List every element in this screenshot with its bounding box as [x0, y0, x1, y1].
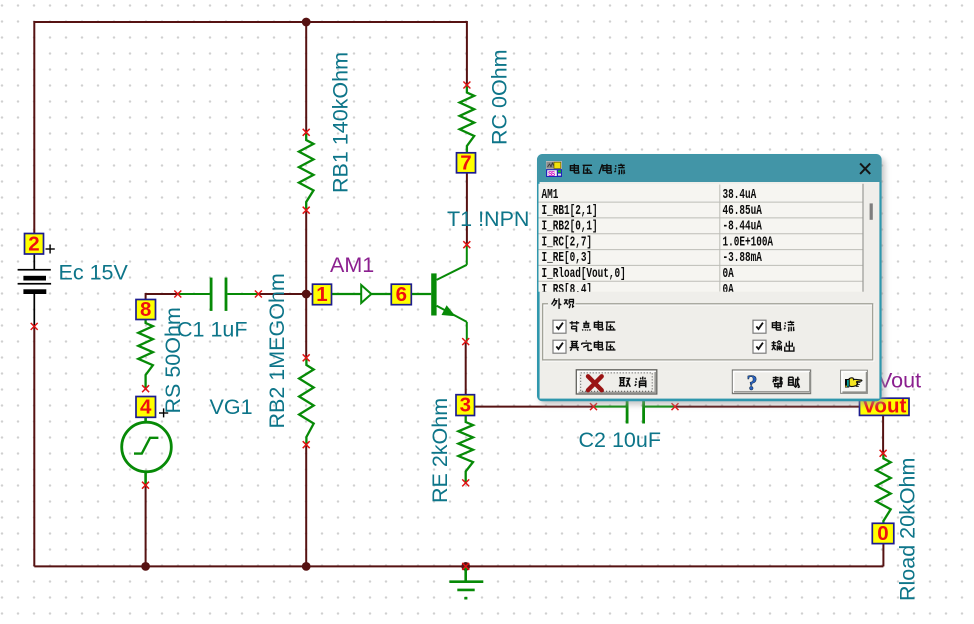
- node 8: [136, 298, 156, 321]
- svg-text:46.85uA: 46.85uA: [723, 202, 763, 219]
- wire emitter pin to node3: [465, 342, 467, 395]
- svg-text:1.0E+100A: 1.0E+100A: [723, 234, 774, 251]
- svg-text:AM1: AM1: [542, 186, 559, 203]
- svg-text:SS: SS: [548, 171, 555, 179]
- wire RB2 to bottom rail: [305, 445, 307, 567]
- dialog 电压/电流 window: [537, 154, 885, 405]
- node 2: [25, 233, 44, 256]
- svg-text:1: 1: [316, 283, 327, 306]
- svg-text:C1 1uF: C1 1uF: [177, 318, 248, 342]
- svg-text:4: 4: [140, 396, 152, 419]
- wire node3 to C2: [474, 406, 593, 408]
- svg-text:2: 2: [28, 233, 39, 256]
- svg-text:T1 !NPN: T1 !NPN: [447, 207, 529, 231]
- node 3: [456, 394, 475, 417]
- svg-text:RC 0Ohm: RC 0Ohm: [488, 49, 512, 145]
- capacitor C1: [178, 278, 259, 311]
- ammeter AM1 wire: [331, 293, 391, 295]
- pin marks (red x): [31, 82, 887, 570]
- dialog group box 外观: [543, 304, 874, 361]
- svg-text:VG1: VG1: [210, 395, 253, 419]
- button hand: [841, 370, 868, 393]
- checkbox 其它电压: [553, 340, 615, 353]
- svg-text:8: 8: [140, 298, 151, 321]
- svg-text:-3.88mA: -3.88mA: [723, 249, 763, 266]
- svg-text:Rload 20kOhm: Rload 20kOhm: [896, 458, 920, 601]
- svg-text:RB2 1MEGOhm: RB2 1MEGOhm: [265, 273, 289, 428]
- svg-text:I_RE[0,3]: I_RE[0,3]: [542, 249, 593, 266]
- svg-text:38.4uA: 38.4uA: [723, 186, 757, 203]
- svg-text:I_Rload[Vout,0]: I_Rload[Vout,0]: [542, 265, 626, 282]
- svg-text:C2 10uF: C2 10uF: [579, 428, 661, 452]
- dialog list scrollbar: [862, 184, 864, 292]
- dialog list box: [539, 184, 864, 292]
- resistor RC: [460, 85, 475, 153]
- node 1: [313, 283, 332, 306]
- wire Vout column to Rload: [882, 415, 884, 453]
- svg-text:?: ?: [747, 370, 758, 395]
- dialog icon: [546, 161, 562, 179]
- wire tee to RB2: [305, 294, 307, 358]
- svg-text:AM1: AM1: [330, 253, 374, 277]
- resistor RS: [138, 320, 153, 389]
- VG1 plus sign: [159, 408, 168, 417]
- junction at node 1 tee: [302, 290, 311, 299]
- wire node6 to base: [411, 293, 431, 295]
- svg-text:3: 3: [460, 394, 471, 417]
- transistor T1: [431, 245, 467, 342]
- wire node8 stub: [146, 294, 178, 300]
- button 帮助 (help): [732, 370, 810, 395]
- wire left rail (battery to bottom): [33, 326, 35, 566]
- ground: [449, 566, 483, 598]
- checkbox 电流: [753, 320, 795, 333]
- ammeter AM1 arrow: [361, 285, 371, 303]
- wire top rail: [34, 22, 467, 234]
- svg-text:RB1 140kOhm: RB1 140kOhm: [329, 52, 353, 193]
- node 4: [136, 396, 156, 419]
- battery Ec (black symbol): [18, 245, 55, 327]
- node 6: [391, 283, 411, 306]
- svg-text:6: 6: [396, 283, 407, 306]
- node 0: [872, 522, 894, 545]
- svg-text:0A: 0A: [723, 265, 735, 282]
- svg-text:I_RB2[0,1]: I_RB2[0,1]: [542, 218, 598, 235]
- resistor RB1: [299, 132, 314, 210]
- wire C1 to junction to node1: [258, 293, 312, 295]
- wire bottom rail: [34, 565, 883, 567]
- wire RB column top: [305, 22, 307, 132]
- svg-text:-8.44uA: -8.44uA: [723, 218, 763, 235]
- svg-text:0: 0: [877, 522, 888, 545]
- dialog list rows text: [542, 186, 774, 298]
- checkbox 节点电压: [553, 320, 615, 333]
- node 7: [457, 151, 476, 174]
- svg-text:7: 7: [460, 151, 471, 174]
- svg-text:RE 2kOhm: RE 2kOhm: [428, 398, 452, 503]
- wire C2 to Vout label: [675, 406, 883, 408]
- wire VG1 to bottom rail: [145, 485, 147, 566]
- wire RB1 to node 1 tee: [305, 210, 307, 294]
- wire Rload to bottom rail: [882, 543, 884, 566]
- svg-text:Ec 15V: Ec 15V: [59, 261, 129, 285]
- checkbox 输出: [753, 340, 794, 353]
- node Vout: [860, 395, 910, 418]
- junction ground: [461, 562, 470, 571]
- dialog close X: [860, 163, 870, 174]
- capacitor C2: [594, 390, 676, 423]
- resistor RB2: [299, 358, 314, 445]
- svg-text:I_RC[2,7]: I_RC[2,7]: [542, 234, 593, 251]
- resistor RE: [458, 415, 473, 483]
- button 取消 (cancel): [576, 370, 657, 394]
- junction RB2 bottom: [302, 562, 311, 571]
- junction VG1 bottom: [141, 562, 150, 571]
- source VG1: [122, 417, 172, 485]
- junction top rail at RB1: [302, 18, 311, 27]
- resistor Rload: [876, 453, 891, 523]
- svg-text:I_RB1[2,1]: I_RB1[2,1]: [542, 202, 598, 219]
- wire node7 to collector pin: [466, 173, 468, 245]
- dialog title 电压/电流: [570, 164, 625, 174]
